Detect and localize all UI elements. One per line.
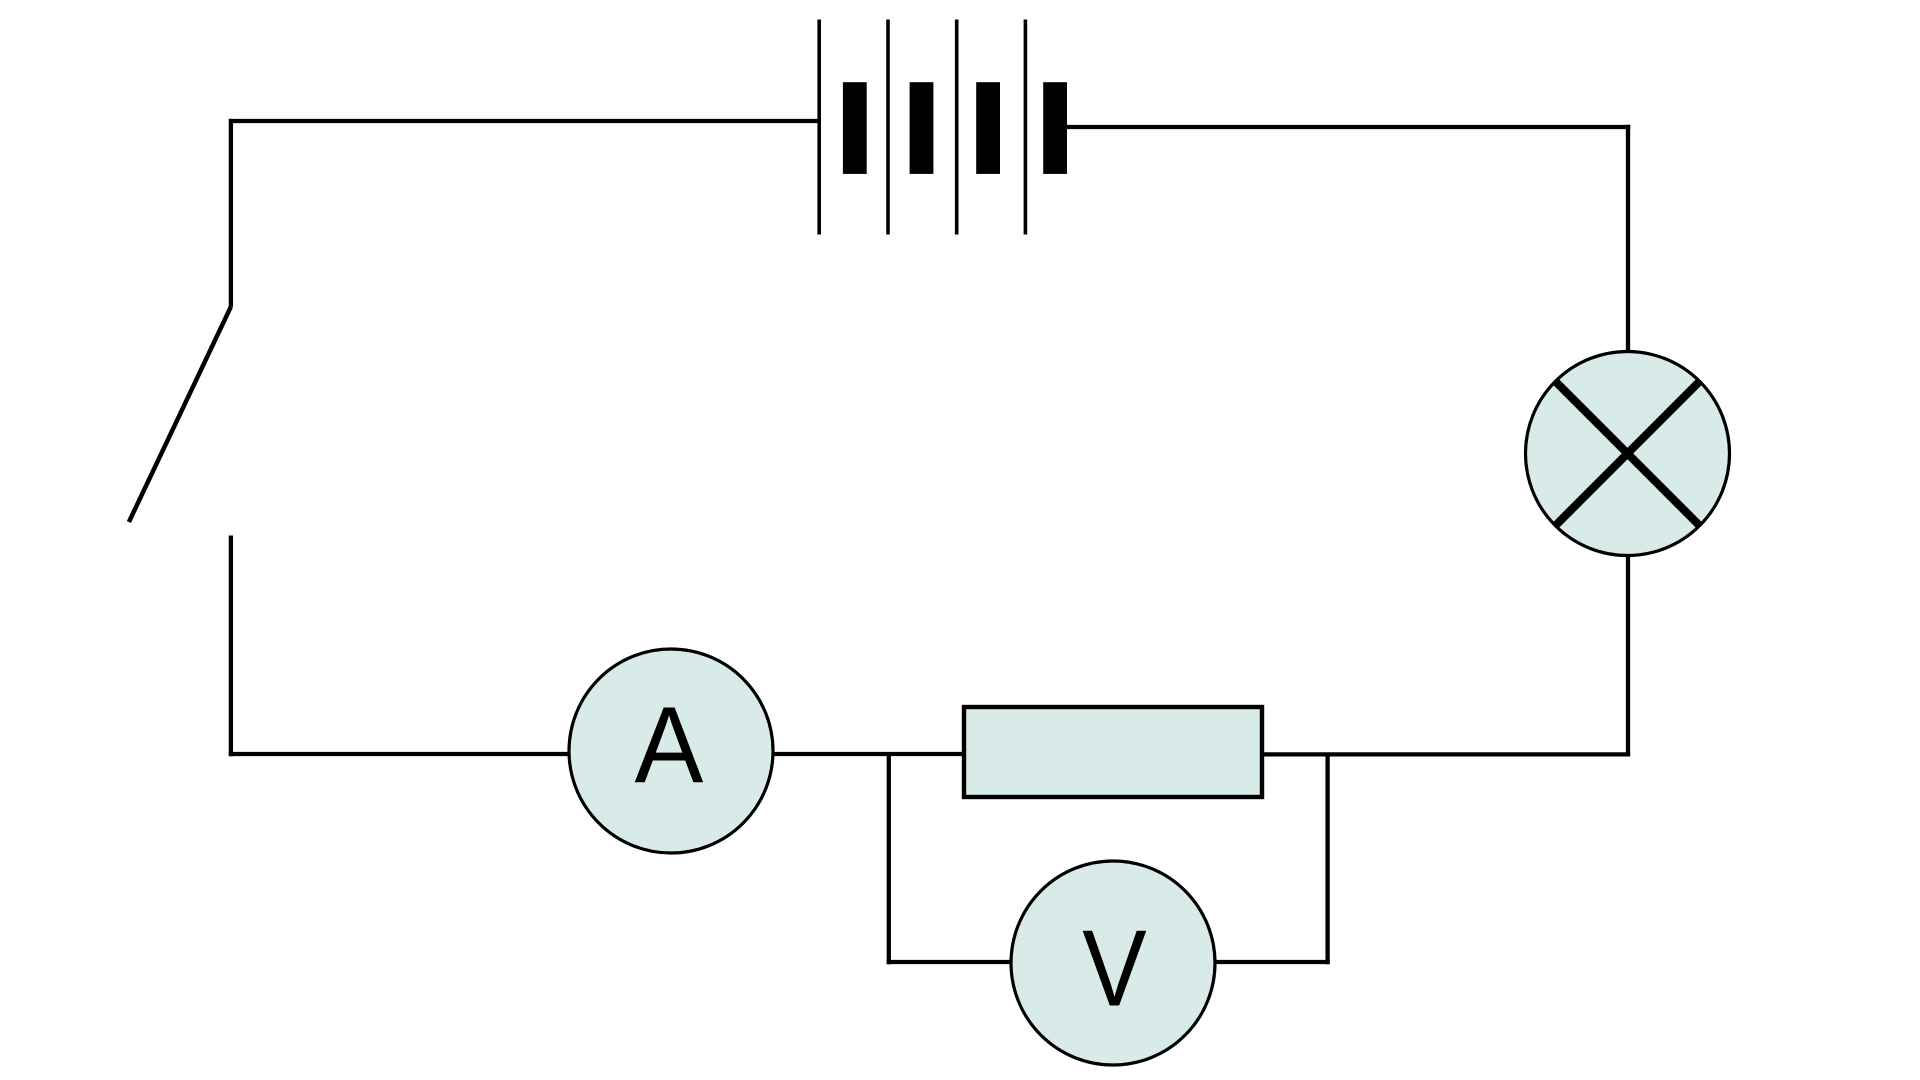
ammeter A1 circle [569,649,773,853]
svg-text:A: A [634,685,703,806]
svg-text:V: V [1082,907,1147,1029]
wire ammeter to resistor [740,752,966,756]
lamp L1 cross stroke 1 [1555,381,1699,525]
wire right vertical upper (battery to lamp) [1626,125,1630,352]
battery cell plate short thick 3 [976,82,1000,174]
battery cell plate long 2 [886,20,890,235]
battery cell plate short thick 4 [1043,82,1067,174]
wire voltmeter branch right vertical [1325,754,1329,964]
switch lower contact wire [229,536,233,757]
wire top left horizontal [229,119,821,123]
battery cell plate short thick 2 [910,82,934,174]
wire voltmeter branch bottom [887,960,1330,964]
wire bottom left to ammeter [229,752,600,756]
wire left vertical upper (switch lead) [229,119,233,307]
switch blade (open) [129,307,231,522]
battery cell plate long 4 [1024,20,1028,235]
lamp L1 circle [1526,352,1730,556]
battery cell plate long 1 [817,20,821,235]
battery cell plate short thick 1 [843,82,867,174]
wire voltmeter branch left vertical [887,754,891,964]
wire resistor to right side [1260,752,1630,756]
lamp L1 cross stroke 2 [1555,381,1699,525]
battery cell plate long 3 [955,20,959,235]
wire battery right to corner [1065,125,1630,129]
wire right vertical lower (lamp to bottom corner) [1626,556,1630,754]
voltmeter V1 circle [1011,861,1215,1065]
resistor R1 [964,707,1262,797]
